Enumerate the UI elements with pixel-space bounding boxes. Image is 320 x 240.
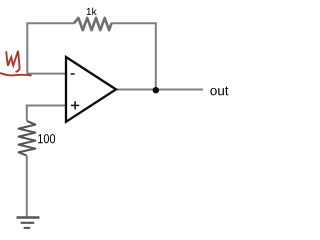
wire noninverting input xyxy=(27,106,67,121)
wire to ground xyxy=(26,156,28,217)
wire output xyxy=(116,89,203,91)
wire feedback loop left/top xyxy=(27,23,74,73)
resistor R1 zigzag xyxy=(74,18,112,30)
op-amp U1 xyxy=(66,57,116,122)
op-amp noninverting input marker xyxy=(71,101,79,109)
op-amp inverting input marker xyxy=(71,73,75,75)
resistor R2 value 100 xyxy=(38,134,55,143)
resistor R1 value 1k xyxy=(87,8,97,15)
red scribble annotation W xyxy=(1,51,31,76)
node junction dot xyxy=(153,87,159,93)
wire top-right and right vertical xyxy=(111,23,156,90)
node out label xyxy=(210,86,228,95)
resistor R2 zigzag vertical xyxy=(19,121,36,156)
ground xyxy=(17,218,40,228)
